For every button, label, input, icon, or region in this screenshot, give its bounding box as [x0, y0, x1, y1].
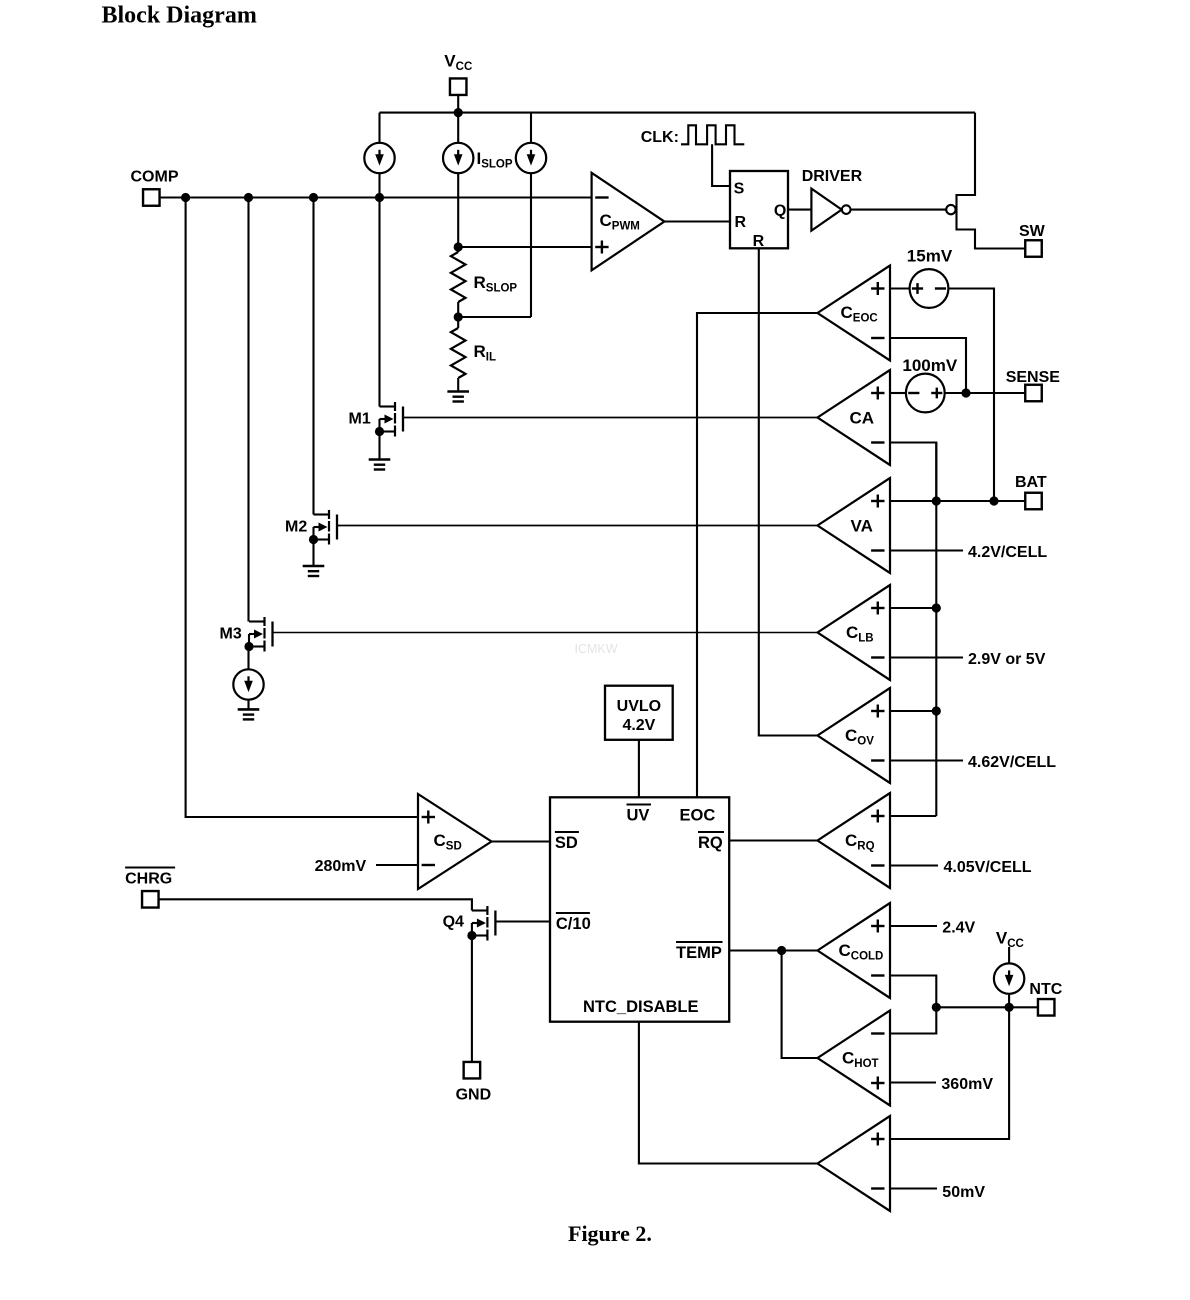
comparator CLB — [818, 585, 891, 680]
current source I1 — [364, 143, 394, 173]
current source NTC bias — [994, 963, 1024, 993]
svg-text:CA: CA — [850, 409, 875, 428]
block control logic box — [550, 797, 729, 1021]
clock waveform — [681, 125, 744, 144]
port VCC label — [444, 51, 472, 73]
resistor RIL — [451, 317, 466, 392]
label RIL — [474, 342, 497, 364]
wire VCC to NTC current source — [1008, 947, 1010, 963]
node VCC rail junction — [454, 108, 463, 117]
pin EOC — [680, 807, 716, 825]
pin NTC_DISABLE — [583, 998, 699, 1016]
wire M3 bias to ground — [247, 700, 249, 709]
port GND pad — [464, 1062, 481, 1079]
wire 100mV to SENSE pad — [945, 392, 1025, 394]
wire CA minus to BAT node — [890, 443, 936, 502]
svg-text:BAT: BAT — [1015, 474, 1047, 491]
label 2.9V or 5V — [968, 651, 1046, 668]
ground RIL — [447, 392, 469, 402]
node TEMP junction — [777, 946, 786, 955]
svg-text:CLK:: CLK: — [641, 129, 679, 146]
wire BAT sense bus vertical — [935, 443, 937, 817]
caption Figure 2. — [568, 1221, 652, 1246]
wire COV minus reference — [890, 759, 963, 761]
label CEOC — [841, 303, 878, 325]
wire I1 to COMP bus — [378, 174, 380, 198]
port SW pad — [1025, 240, 1042, 257]
svg-text:4.62V/CELL: 4.62V/CELL — [968, 754, 1056, 771]
wire rail to I3 — [530, 113, 532, 143]
wire BAT line — [890, 500, 1025, 502]
node COMP junction D — [375, 193, 384, 202]
svg-text:2.9V or 5V: 2.9V or 5V — [968, 651, 1046, 668]
svg-text:4.05V/CELL: 4.05V/CELL — [944, 859, 1032, 876]
wire VA minus reference — [890, 549, 963, 551]
pin R — [735, 214, 747, 231]
port COMP label — [131, 169, 179, 186]
label Q4 — [443, 914, 464, 931]
label VA — [851, 517, 873, 536]
node COMP junction C — [309, 193, 318, 202]
wire COMP to CSD plus — [186, 198, 418, 818]
port BAT pad — [1025, 493, 1042, 510]
wire NTC line — [936, 1006, 1038, 1008]
svg-text:280mV: 280mV — [315, 858, 367, 875]
wire CHOT minus to NTC node — [890, 1007, 936, 1033]
comparator CEOC — [818, 266, 891, 361]
latch U1 box — [730, 171, 788, 248]
svg-text:NTC: NTC — [1029, 981, 1062, 998]
pin UV — [627, 805, 652, 825]
wire rail to ISLOP — [457, 113, 459, 143]
node BAT junction A — [932, 496, 941, 505]
label 4.05V/CELL — [944, 859, 1032, 876]
wire CEOC plus to 15mV source — [890, 287, 910, 289]
pin RQ — [698, 832, 724, 852]
svg-text:M2: M2 — [285, 519, 307, 536]
wire COMP to M3 drain — [247, 198, 249, 622]
port COMP pad — [143, 189, 160, 206]
svg-text:Figure 2.: Figure 2. — [568, 1221, 652, 1246]
current source M3 bias — [233, 669, 263, 699]
label ISLOP — [477, 149, 513, 171]
wire VCC stem — [457, 95, 459, 113]
transistor M1 — [375, 402, 403, 437]
node RSLOP bottom — [454, 312, 463, 321]
wire COV plus — [890, 710, 936, 712]
wire CCOLD plus reference — [890, 925, 937, 927]
wire CLB output to M3 gate — [273, 632, 818, 634]
comparator COV — [818, 688, 891, 783]
wire CLB minus reference — [890, 656, 963, 658]
label 4.2V/CELL — [968, 544, 1047, 561]
svg-text:VA: VA — [851, 517, 873, 536]
ground M3 — [238, 709, 260, 719]
wire 280mV to CSD minus — [376, 864, 418, 866]
port VCC pad — [450, 78, 467, 95]
svg-text:UV: UV — [627, 807, 650, 825]
wire Q4 gate to C/10 pin — [495, 920, 550, 922]
label 360mV — [941, 1076, 993, 1093]
label M3 — [220, 626, 242, 643]
wire CHRG to Q4 drain — [159, 899, 472, 910]
wire M3 source to current source — [247, 647, 249, 670]
pin S — [734, 180, 745, 197]
port CHRG label — [125, 868, 175, 888]
svg-text:Q: Q — [774, 203, 786, 220]
wire CA plus to 100mV source — [890, 392, 906, 394]
label M1 — [349, 411, 371, 428]
wire M2 source to ground — [312, 540, 314, 567]
node CLB plus junction — [932, 603, 941, 612]
ground M2 — [303, 566, 325, 576]
resistor RSLOP — [451, 247, 466, 317]
comparator CRQ — [818, 793, 891, 888]
offset source 100mV — [906, 374, 945, 413]
svg-text:Block Diagram: Block Diagram — [102, 2, 257, 28]
label CA — [850, 409, 875, 428]
svg-text:R: R — [753, 233, 765, 250]
wire VCC rail — [380, 112, 976, 114]
svg-text:COMP: COMP — [131, 169, 179, 186]
node COV plus junction — [932, 706, 941, 715]
svg-text:SW: SW — [1019, 223, 1046, 240]
label VCC ntc — [996, 929, 1024, 951]
port CHRG pad — [142, 891, 159, 908]
comparator CPWM — [592, 173, 665, 270]
wire COMP to M1 drain — [378, 198, 380, 407]
wire CPWM output — [664, 220, 730, 222]
svg-text:15mV: 15mV — [907, 247, 953, 266]
wire TEMP to CCOLD output — [729, 949, 817, 951]
svg-text:2.4V: 2.4V — [942, 920, 975, 937]
wire I3 down and left to RSLOP bottom node — [458, 174, 531, 318]
svg-text:R: R — [735, 214, 747, 231]
wire CEOC output to EOC pin — [697, 313, 818, 797]
wire bottom comp minus reference — [890, 1187, 937, 1189]
svg-text:360mV: 360mV — [941, 1076, 993, 1093]
node COMP junction A — [181, 193, 190, 202]
svg-text:4.2V/CELL: 4.2V/CELL — [968, 544, 1047, 561]
port SENSE pad — [1025, 385, 1042, 402]
wire CHOT output to TEMP node — [782, 951, 818, 1059]
comparator NTC sense — [818, 1116, 891, 1211]
wire CEOC minus to SENSE node — [890, 338, 966, 393]
port GND label — [456, 1087, 492, 1104]
svg-text:RQ: RQ — [698, 834, 723, 852]
offset source 15mV — [910, 269, 949, 308]
svg-text:CHRG: CHRG — [125, 871, 172, 888]
pin SD — [555, 832, 579, 852]
transistor switch to SW — [957, 113, 1026, 249]
wire CLB plus — [890, 607, 936, 609]
label 100mV — [902, 356, 957, 375]
label UVLO — [617, 698, 661, 715]
svg-text:100mV: 100mV — [902, 356, 957, 375]
label 4.2V — [622, 717, 655, 734]
wire latch R to COV output — [759, 248, 818, 735]
port SW label — [1019, 223, 1046, 240]
label CSD — [434, 831, 462, 853]
label RSLOP — [474, 273, 518, 295]
port BAT label — [1015, 474, 1047, 491]
transistor M3 — [244, 617, 272, 652]
current source I3 — [516, 143, 546, 173]
wire UVLO to UV pin — [638, 740, 640, 798]
wire RQ to CRQ output — [729, 839, 817, 841]
watermark ICMKW — [575, 642, 618, 656]
wire CRQ minus reference — [890, 864, 938, 866]
label 4.62V/CELL — [968, 754, 1056, 771]
wire VA output to M2 gate — [337, 525, 818, 527]
label COV — [845, 726, 874, 748]
wire CSD output to SD pin — [492, 840, 551, 842]
wire bottom comp output to NTC_DISABLE — [639, 1022, 818, 1164]
node COMP junction B — [244, 193, 253, 202]
svg-text:NTC_DISABLE: NTC_DISABLE — [583, 998, 699, 1016]
transistor M2 — [309, 510, 337, 545]
pin C/10 — [556, 913, 591, 933]
wire bottom comp plus to NTC node — [890, 1007, 1009, 1139]
wire rail to I1 — [378, 113, 380, 143]
current source ISLOP — [443, 143, 473, 173]
wire ISLOP to RSLOP node — [457, 174, 459, 248]
inverter DRIVER — [811, 189, 850, 231]
wire 15mV to BAT node — [948, 289, 994, 502]
node NTC junction B — [1005, 1003, 1014, 1012]
svg-text:Q4: Q4 — [443, 914, 464, 931]
transistor Q4 — [467, 906, 495, 941]
block UVLO box — [605, 686, 673, 740]
svg-text:M3: M3 — [220, 626, 242, 643]
wire COMP to M2 drain — [312, 198, 314, 515]
wire CCOLD minus to NTC node — [890, 976, 936, 1008]
port SENSE label — [1006, 369, 1061, 386]
svg-text:C/10: C/10 — [556, 915, 591, 933]
port NTC pad — [1038, 999, 1055, 1016]
switch gate bubble — [946, 205, 955, 214]
svg-text:S: S — [734, 180, 745, 197]
wire CA output to M1 gate — [403, 417, 818, 419]
port NTC label — [1029, 981, 1062, 998]
label 2.4V — [942, 920, 975, 937]
wire COMP bus — [160, 196, 592, 198]
svg-text:SD: SD — [555, 834, 578, 852]
wire Q4 source to GND pad — [471, 936, 473, 1063]
label DRIVER — [802, 168, 863, 185]
node BAT junction B — [989, 496, 998, 505]
comparator CHOT — [818, 1011, 891, 1106]
svg-text:SENSE: SENSE — [1006, 369, 1061, 386]
svg-text:50mV: 50mV — [942, 1184, 985, 1201]
svg-text:DRIVER: DRIVER — [802, 168, 863, 185]
wire NTC source to node — [1008, 994, 1010, 1007]
label 280mV — [315, 858, 367, 875]
label 15mV — [907, 247, 953, 266]
wire CRQ plus — [890, 815, 936, 817]
label CRQ — [845, 831, 875, 853]
label CLK — [641, 129, 679, 146]
label 50mV — [942, 1184, 985, 1201]
wire M1 source to ground — [378, 432, 380, 460]
svg-text:UVLO: UVLO — [617, 698, 661, 715]
node NTC junction A — [932, 1003, 941, 1012]
label CPWM — [600, 211, 640, 233]
svg-text:EOC: EOC — [680, 807, 716, 825]
node RSLOP top — [454, 242, 463, 251]
label CLB — [846, 623, 874, 645]
wire CPWM plus input — [458, 246, 591, 248]
svg-text:M1: M1 — [349, 411, 371, 428]
comparator VA — [818, 478, 891, 573]
wire CHOT plus reference — [890, 1081, 936, 1083]
node SENSE junction — [961, 388, 970, 397]
title Block Diagram — [102, 2, 257, 28]
comparator CA — [818, 370, 891, 465]
comparator CSD — [418, 794, 492, 889]
label M2 — [285, 519, 307, 536]
svg-text:TEMP: TEMP — [676, 944, 722, 962]
pin TEMP — [676, 942, 723, 962]
pin Q — [774, 203, 786, 220]
label CCOLD — [839, 941, 884, 963]
svg-text:ICMKW: ICMKW — [575, 642, 618, 656]
wire CLK to S input — [712, 144, 730, 186]
ground M1 — [369, 460, 391, 470]
svg-text:4.2V: 4.2V — [622, 717, 655, 734]
wire Q output — [788, 209, 811, 211]
svg-text:GND: GND — [456, 1087, 492, 1104]
pin R bottom — [753, 233, 765, 250]
label CHOT — [842, 1049, 879, 1071]
wire driver to switch gate — [851, 209, 947, 211]
comparator CCOLD — [818, 903, 891, 998]
